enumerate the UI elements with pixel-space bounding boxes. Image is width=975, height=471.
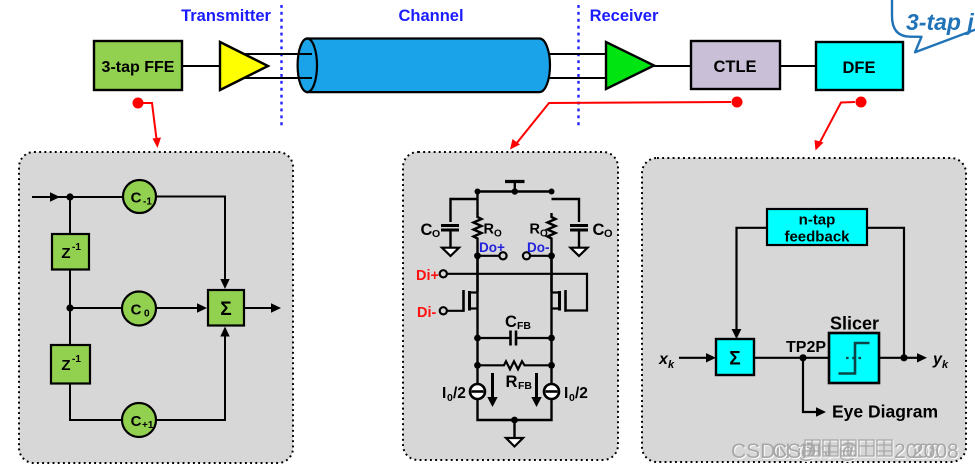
node CFB right — [548, 335, 555, 342]
node TP2P — [799, 354, 806, 361]
svg-text:R: R — [506, 373, 518, 391]
differential trace lower (rx) — [548, 77, 605, 79]
svg-text:Σ: Σ — [729, 349, 740, 370]
wire Z-1 down and right to C+1 — [70, 384, 122, 421]
svg-text:Do+: Do+ — [479, 240, 505, 255]
block CTLE — [691, 41, 780, 89]
transistor M1 channel bar — [468, 291, 471, 311]
wire Z-1 to second node — [69, 270, 71, 309]
svg-text:O: O — [540, 229, 548, 240]
branch left (drain to CFB node) — [476, 256, 478, 338]
wire slicer to output node — [879, 357, 904, 359]
summer sigma — [208, 290, 244, 326]
wire CTLE to DFE — [780, 65, 816, 67]
branch to current source right — [550, 338, 552, 384]
svg-text:R: R — [530, 222, 541, 238]
wire C0 to summer with arrow — [156, 307, 199, 309]
capacitor CO left — [441, 224, 459, 227]
svg-text:Receiver: Receiver — [590, 7, 659, 25]
ground right — [571, 248, 588, 256]
transistor M1 drain stub — [470, 291, 478, 293]
tap coefficient C0 — [122, 292, 156, 326]
wire summer to slicer — [754, 357, 829, 359]
CTLE detail panel — [403, 152, 618, 460]
node Do- — [548, 252, 555, 259]
svg-text:Transmitter: Transmitter — [181, 7, 271, 25]
terminal Do- — [523, 252, 530, 259]
transistor M1 source stub — [470, 307, 478, 309]
svg-text:FB: FB — [518, 380, 532, 392]
wire rail to RO left — [476, 192, 478, 215]
svg-text:/2: /2 — [575, 385, 588, 402]
block DFE — [816, 42, 903, 90]
svg-text:C: C — [131, 413, 142, 430]
tap coefficient C+1 — [122, 403, 156, 437]
svg-text:Slicer: Slicer — [830, 314, 879, 334]
supply bar — [505, 180, 525, 183]
ground bottom — [506, 438, 523, 447]
svg-text:Z: Z — [61, 357, 70, 374]
svg-text:k: k — [668, 359, 675, 371]
svg-text:Di-: Di- — [417, 305, 437, 321]
node second tap — [66, 304, 73, 311]
summer sigma DFE — [716, 339, 754, 375]
supply rail — [478, 190, 552, 192]
svg-text:C: C — [421, 221, 433, 239]
node input tap — [66, 193, 73, 200]
wire RO left to Do+ node — [476, 241, 478, 292]
svg-text:3-tap j: 3-tap j — [906, 9, 974, 35]
svg-text:C: C — [593, 221, 605, 239]
wire C-1 to summer (over and down) — [156, 197, 225, 282]
current source left — [470, 384, 485, 399]
bottom rail — [478, 399, 552, 420]
block slicer — [829, 333, 879, 383]
input wire with arrow — [32, 196, 123, 198]
speech bubble (cut off top-right) — [892, 0, 975, 52]
wire RX amp to CTLE — [652, 65, 691, 67]
callout dot FFE — [133, 98, 144, 109]
outer wire right to CO — [552, 199, 580, 222]
differential trace upper (rx) — [548, 53, 605, 55]
channel cylinder left cap — [298, 39, 317, 93]
wire RO right to Do- node — [550, 241, 552, 292]
svg-text:R: R — [484, 222, 495, 238]
block 3-tap FFE — [94, 41, 182, 90]
current source right — [544, 384, 559, 399]
node Do+ — [474, 252, 481, 259]
svg-text:k: k — [942, 359, 949, 371]
branch to current source left — [476, 338, 478, 384]
node RFB left — [474, 362, 481, 369]
node rail left — [475, 189, 481, 195]
wire Di+ to M2 gate — [447, 274, 587, 311]
input arrow xk to summer — [679, 357, 708, 359]
wire input node down to Z-1 — [69, 197, 71, 234]
delay element Z-1 (second) — [51, 345, 90, 384]
svg-text:feedback: feedback — [784, 229, 850, 246]
channel cylinder body — [307, 39, 550, 93]
wire node to C0 — [70, 307, 122, 309]
svg-text:Channel: Channel — [398, 7, 463, 25]
node rail right — [549, 189, 555, 195]
svg-text:Eye Diagram: Eye Diagram — [832, 402, 938, 422]
callout dot CTLE — [732, 97, 743, 108]
svg-text:-1: -1 — [72, 242, 81, 253]
node RFB right — [548, 362, 555, 369]
svg-text:C: C — [131, 302, 142, 319]
capacitor CFB — [478, 337, 511, 339]
svg-text:-1: -1 — [143, 197, 152, 208]
delay element Z-1 (first) — [52, 234, 89, 270]
current arrow right — [535, 373, 538, 399]
feedback wire left with arrow into summer — [737, 228, 768, 331]
transistor M2 drain stub — [552, 291, 560, 293]
boundary dashed line transmitter/channel — [280, 5, 282, 128]
output arrow — [244, 307, 273, 309]
transistor M1 gate bar — [462, 290, 465, 312]
node rail center — [512, 188, 518, 194]
differential trace upper (tx) — [243, 53, 312, 55]
callout arrow DFE — [819, 102, 855, 144]
svg-text:+1: +1 — [142, 420, 154, 431]
svg-text:/2: /2 — [453, 385, 466, 402]
slicer step symbol — [839, 343, 870, 374]
terminal Do+ — [499, 252, 506, 259]
node CFB left — [474, 335, 481, 342]
svg-text:I: I — [442, 385, 446, 402]
feedback wire right from output node — [867, 228, 904, 358]
svg-text:O: O — [432, 228, 440, 240]
wire Do- to terminal — [530, 255, 552, 257]
wire to ground — [513, 420, 515, 438]
supply tick — [514, 182, 516, 192]
svg-text:Di+: Di+ — [416, 268, 439, 284]
callout line CTLE — [516, 102, 731, 144]
outer wire left to CO — [451, 199, 478, 222]
svg-text:C: C — [131, 190, 142, 207]
wire Di- to M1 gate — [447, 310, 464, 312]
wire C+1 right and up to summer — [156, 334, 225, 420]
svg-text:0: 0 — [144, 309, 150, 320]
terminal Di+ — [440, 270, 447, 277]
watermark CSDN — [731, 440, 960, 464]
current arrow left — [491, 373, 494, 399]
resistor RO right — [548, 213, 556, 241]
output arrow yk — [904, 357, 919, 359]
node bottom center — [511, 417, 518, 424]
svg-text:CTLE: CTLE — [713, 58, 756, 76]
wire Do+ to terminal — [478, 255, 500, 257]
branch right (drain to CFB node) — [550, 256, 552, 338]
svg-text:n-tap: n-tap — [799, 212, 836, 229]
resistor RFB — [478, 361, 552, 369]
terminal Di- — [440, 307, 447, 314]
svg-text:Z: Z — [61, 245, 70, 262]
svg-text:C: C — [505, 313, 517, 331]
svg-text:Do-: Do- — [527, 240, 550, 255]
svg-text:-1: -1 — [72, 354, 81, 365]
svg-text:DFE: DFE — [843, 59, 876, 77]
boundary dashed line channel/receiver — [577, 5, 579, 128]
transistor M2 channel bar — [558, 291, 561, 311]
TX driver amplifier — [220, 42, 268, 90]
DFE detail panel — [642, 158, 966, 462]
RX amplifier — [606, 42, 654, 89]
block n-tap feedback — [767, 209, 867, 245]
svg-text:Σ: Σ — [220, 299, 231, 320]
ground left — [442, 248, 459, 256]
capacitor CO right — [570, 224, 588, 227]
FFE detail panel — [19, 152, 293, 463]
differential trace lower (tx) — [243, 77, 312, 79]
wire node down to Z-1 second — [69, 308, 71, 345]
callout dot DFE — [856, 97, 867, 108]
transistor M2 gate bar — [564, 290, 567, 312]
transistor M2 source stub — [552, 307, 560, 309]
svg-text:O: O — [494, 229, 502, 240]
svg-text:TP2P: TP2P — [786, 339, 826, 356]
svg-text:FB: FB — [517, 320, 531, 332]
callout arrow FFE — [143, 103, 157, 139]
svg-text:I: I — [564, 385, 568, 402]
svg-text:3-tap FFE: 3-tap FFE — [102, 59, 175, 76]
tap coefficient C-1 — [123, 180, 156, 213]
resistor RO left — [474, 213, 482, 241]
eye diagram tap wire — [803, 358, 818, 412]
node output — [900, 354, 907, 361]
wire FFE to TX driver — [182, 65, 219, 67]
svg-text:2008: 2008 — [912, 440, 959, 463]
svg-text:O: O — [604, 228, 613, 240]
